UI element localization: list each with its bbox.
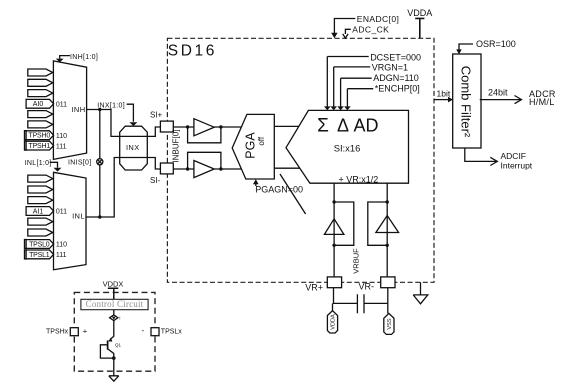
svg-text:24bit: 24bit <box>488 87 508 97</box>
svg-text:PGA: PGA <box>244 132 258 159</box>
svg-text:I: I <box>119 315 120 320</box>
svg-text:VRGN=1: VRGN=1 <box>372 63 408 73</box>
svg-text:TPSHx: TPSHx <box>46 328 69 335</box>
svg-text:INH[1:0]: INH[1:0] <box>70 54 98 61</box>
svg-text:110: 110 <box>56 133 67 140</box>
svg-text:VRBUF: VRBUF <box>352 248 361 274</box>
svg-text:111: 111 <box>56 143 67 150</box>
svg-text:Control Circuit: Control Circuit <box>86 299 144 309</box>
svg-text:Δ: Δ <box>337 116 349 136</box>
svg-text:Q1: Q1 <box>115 342 122 347</box>
svg-text:VDDA: VDDA <box>331 314 337 330</box>
svg-text:H/M/L: H/M/L <box>529 97 555 107</box>
svg-text:INBUF[0]: INBUF[0] <box>172 130 181 163</box>
svg-text:Σ: Σ <box>317 116 329 137</box>
svg-text:VR-: VR- <box>359 281 375 291</box>
svg-text:TPSL1: TPSL1 <box>29 252 50 259</box>
svg-text:Comb Filter²: Comb Filter² <box>459 66 474 138</box>
svg-text:Interrupt: Interrupt <box>501 161 533 171</box>
svg-text:VDDA: VDDA <box>407 8 432 18</box>
svg-text:off: off <box>257 136 266 146</box>
svg-text:TPSLx: TPSLx <box>161 328 183 335</box>
svg-text:AD: AD <box>353 116 378 136</box>
svg-text:TPSH1: TPSH1 <box>29 143 51 150</box>
svg-text:ADGN=110: ADGN=110 <box>373 73 419 83</box>
svg-text:INIS[0]: INIS[0] <box>68 159 92 166</box>
svg-text:011: 011 <box>56 209 67 216</box>
svg-text:VSS: VSS <box>387 318 393 329</box>
svg-text:110: 110 <box>56 242 67 249</box>
svg-text:TPSH0: TPSH0 <box>29 133 51 140</box>
svg-text:OSR=100: OSR=100 <box>476 39 516 49</box>
svg-text:SD16: SD16 <box>168 42 217 59</box>
svg-text:TPSL0: TPSL0 <box>29 241 50 248</box>
svg-text:VDDX: VDDX <box>103 279 124 288</box>
svg-text:INL: INL <box>72 211 85 220</box>
svg-text:ENADC[0]: ENADC[0] <box>357 14 399 24</box>
svg-text:INH: INH <box>71 105 85 114</box>
svg-text:INX: INX <box>126 143 140 152</box>
svg-text:ADCIF: ADCIF <box>501 151 527 161</box>
svg-text:ADC_CK: ADC_CK <box>352 25 389 35</box>
svg-text:+ VR:x1/2: + VR:x1/2 <box>339 174 379 184</box>
svg-text:1bit: 1bit <box>437 88 451 98</box>
svg-text:111: 111 <box>56 252 67 259</box>
svg-text:VR+: VR+ <box>305 282 323 292</box>
svg-text:PGAGN=00: PGAGN=00 <box>255 184 303 194</box>
svg-text:AI1: AI1 <box>33 208 44 215</box>
svg-text:+: + <box>83 327 88 336</box>
svg-text:011: 011 <box>56 102 67 109</box>
svg-text:SI+: SI+ <box>150 110 163 119</box>
svg-text:DCSET=000: DCSET=000 <box>370 52 421 62</box>
svg-text:-: - <box>141 326 144 335</box>
svg-text:SI-: SI- <box>150 176 161 185</box>
svg-text:*ENCHP[0]: *ENCHP[0] <box>375 84 420 94</box>
svg-text:INL[1:0]: INL[1:0] <box>25 160 52 167</box>
svg-text:SI:x16: SI:x16 <box>334 142 361 153</box>
svg-text:INX[1:0]: INX[1:0] <box>97 102 125 109</box>
svg-text:AI0: AI0 <box>33 101 44 108</box>
